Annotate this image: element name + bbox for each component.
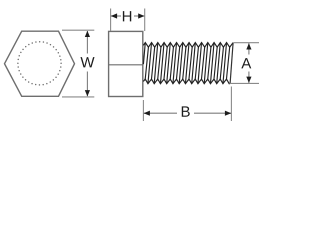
shaft end edge	[230, 43, 233, 84]
bolt head mid line	[109, 64, 143, 66]
thread flank lines	[143, 43, 229, 84]
A arrowhead down	[246, 77, 251, 83]
H arrowhead right	[138, 13, 144, 18]
A arrowhead up	[246, 43, 251, 49]
H dimension right extension line	[144, 9, 146, 32]
A dimension top extension line	[234, 42, 259, 44]
H label	[123, 11, 131, 21]
W arrowhead down	[85, 90, 90, 96]
A dimension line upper segment	[248, 43, 250, 54]
W dimension line upper segment	[86, 31, 88, 54]
A label	[241, 58, 251, 68]
W dimension bottom extension line	[62, 96, 94, 98]
B arrowhead right	[225, 111, 231, 116]
H arrowhead left	[111, 13, 117, 18]
A dimension line lower segment	[248, 72, 250, 83]
B dimension right extension line	[230, 87, 232, 122]
W dimension top extension line	[62, 29, 94, 31]
W label	[80, 57, 94, 67]
hex head end view outline	[5, 31, 75, 96]
threaded shaft bottom zigzag edge	[143, 79, 230, 84]
W arrowhead up	[85, 31, 90, 37]
H dimension line right segment	[134, 15, 144, 17]
A dimension bottom extension line	[230, 82, 260, 84]
H dimension left extension line	[110, 9, 112, 32]
B dimension line right segment	[194, 112, 231, 114]
B dimension left extension line	[142, 100, 144, 121]
B arrowhead left	[144, 111, 150, 116]
B label	[182, 106, 190, 116]
H dimension line left segment	[111, 15, 121, 17]
bolt head side view rectangle	[109, 31, 143, 96]
B dimension line left segment	[144, 112, 177, 114]
threaded shaft top zigzag edge	[143, 43, 233, 48]
W dimension line lower segment	[86, 72, 88, 97]
dotted thread circle inside hex head	[18, 42, 61, 85]
